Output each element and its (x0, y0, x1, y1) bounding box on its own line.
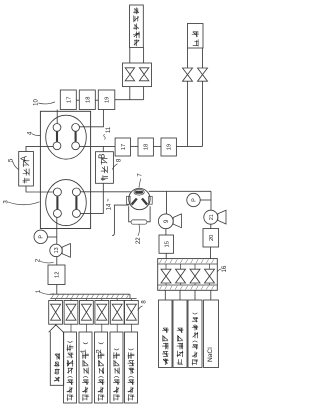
valve 13 (50, 244, 62, 256)
wire 17B-18B (131, 145, 139, 147)
svg-text:18: 18 (85, 97, 91, 103)
box 19 (row B) (161, 138, 176, 156)
box column B (カラムB) (96, 152, 114, 184)
manifold valve 4 box (95, 301, 109, 325)
valve block 16 outline (158, 259, 218, 291)
box 19 (row A) (98, 90, 115, 110)
port (53, 209, 61, 217)
port (72, 188, 80, 196)
box NaCl (204, 300, 219, 368)
svg-text:A: A (19, 155, 28, 161)
svg-text:20: 20 (209, 235, 215, 241)
box 15 (159, 235, 174, 253)
box 17 (row A) (60, 90, 76, 110)
port (72, 142, 80, 150)
wire junction to columnB top (102, 146, 104, 151)
block16 inner top line (158, 263, 217, 265)
svg-text:B: B (98, 154, 107, 159)
svg-text:NaCl: NaCl (207, 347, 214, 362)
wire nextstep right down (143, 47, 145, 63)
sample arrow (49, 325, 64, 332)
wire upper RT port to box19 (80, 110, 104, 127)
rotor channel upper-left (56, 132, 58, 142)
wire valve7 to right chain (149, 190, 211, 192)
sample container (50, 332, 63, 386)
valve waste-right (198, 68, 208, 81)
svg-text:17: 17 (66, 97, 72, 103)
valve7 left horn (127, 196, 131, 204)
wire below nextstep valve R (143, 87, 145, 100)
box buffer-washing (緩衝液(洗浄用)) (125, 332, 138, 403)
manifold band end (129, 294, 131, 298)
svg-text:2: 2 (94, 349, 103, 353)
svg-text:18: 18 (144, 144, 150, 150)
pump 21 (204, 210, 218, 224)
wire box20 to valve block (210, 247, 212, 259)
wire valve to reservoir (101, 324, 103, 332)
svg-text:P: P (39, 235, 45, 239)
wire nextstep left down (129, 47, 131, 63)
svg-text:P: P (192, 198, 198, 202)
valve in block16 @x=166 (161, 269, 171, 283)
pump P (right) (187, 193, 200, 206)
block16 hatch ticks (160, 259, 214, 289)
motor of valve 13 (62, 244, 70, 258)
manifold bottom line (50, 298, 136, 300)
box buffer-neutralize (緩衝液(中和化用)) (64, 332, 77, 403)
port (72, 209, 80, 217)
rotary valve 4 (upper circle) (46, 115, 87, 159)
valve7 bottom bracket (129, 206, 150, 222)
valve in block16 @x=180.5 (176, 269, 186, 283)
box 18 (row B) (138, 138, 153, 156)
wire valve to reservoir (70, 324, 72, 332)
wire P to main line (47, 236, 56, 238)
wire columnA bottom to lower LT port (26, 186, 53, 192)
tilde of 11 (104, 134, 106, 139)
manifold valve 3 box (80, 301, 94, 325)
valve in block16 @x=209.5 (205, 269, 215, 283)
wire valve to reservoir (116, 324, 118, 332)
wire down to pump 9 (166, 191, 168, 214)
svg-text:12: 12 (55, 272, 61, 278)
wire waste left upper (187, 48, 189, 68)
manifold valve 1 box (49, 301, 63, 325)
manifold top line (50, 293, 130, 295)
rotary valve 3 (lower circle) (46, 180, 87, 226)
wire 14 (drain) (112, 205, 129, 236)
wire 19B to waste valves (176, 145, 202, 147)
wire waste left lower (187, 81, 189, 146)
svg-text:15: 15 (164, 241, 170, 247)
svg-text:11: 11 (106, 126, 112, 133)
port (53, 188, 61, 196)
wire box15 to valve block (165, 253, 167, 258)
valve7 dark wedge left (132, 199, 137, 205)
wire block16 to reservoir (210, 290, 212, 300)
wire pump21 to box20 (210, 224, 212, 228)
wire down to pump 21 (210, 191, 212, 210)
wire block16 to reservoir (194, 290, 196, 300)
manifold hatch ticks (52, 295, 129, 299)
wire waste right lower (202, 81, 204, 146)
svg-text:13: 13 (54, 247, 60, 253)
svg-text:14: 14 (106, 203, 112, 210)
port (72, 124, 80, 132)
wire 17-18 (76, 99, 79, 101)
manifold valve 6 box (125, 301, 139, 325)
rotor channel lower-right (75, 196, 77, 209)
box buffer-elution (緩衝液(溶出用)) (110, 332, 123, 403)
wire below nextstep valve L (129, 87, 131, 100)
wire P to downline (200, 199, 211, 201)
svg-text:1: 1 (79, 349, 88, 353)
box regen-discharge (再生排出液) (173, 300, 187, 368)
pump P (left) (34, 230, 47, 243)
wire 18B-19B (153, 145, 161, 147)
wire valve to reservoir (85, 324, 87, 332)
valve nextstep-left (125, 68, 134, 81)
box buffer-elution2 (緩衝液(溶出用2)) (95, 332, 108, 403)
svg-text:16: 16 (222, 265, 228, 272)
rotor channel upper-right (75, 132, 77, 142)
rotary valve body rect (40, 111, 90, 228)
valve waste-left (183, 68, 193, 81)
svg-text:10: 10 (34, 99, 40, 106)
svg-text:21: 21 (209, 214, 215, 220)
svg-text:19: 19 (167, 144, 173, 150)
box next-step (次ステップ) (130, 5, 144, 47)
wire 19 to nextstep valves (115, 99, 144, 101)
box 12 (48, 265, 65, 285)
box 20 (203, 229, 219, 247)
block16 inner bottom line (158, 284, 217, 286)
box column A (カラムA) (19, 152, 34, 187)
wire 13 to box12 (56, 257, 58, 265)
valve in block16 @x=195 (190, 269, 200, 283)
box washing-discharge (洗浄排出液) (159, 300, 173, 368)
pump 9 (158, 214, 173, 229)
rotor channel lower-left (56, 196, 58, 209)
wire waste right upper (202, 48, 204, 68)
motor of pump 9 (173, 214, 181, 228)
wire columnA top to upper LB port (26, 146, 53, 151)
port (53, 142, 61, 150)
wire box17 to port (56, 110, 58, 124)
box 17 (row B) (115, 138, 130, 156)
manifold valve 2 box (64, 301, 78, 325)
wire pump9 to box15 (165, 229, 167, 235)
valve7 top port outline (134, 189, 144, 195)
wire box12 to manifold (56, 285, 58, 295)
svg-text:22: 22 (136, 237, 142, 244)
wire 18-19 (95, 99, 98, 101)
port (53, 124, 61, 132)
valve7 dark wedge right (142, 199, 147, 205)
wire block16 to reservoir (179, 290, 181, 300)
sample inlet (サンプル) (55, 324, 57, 326)
manifold valve 5 box (110, 301, 124, 325)
wire valve to reservoir (130, 324, 132, 332)
box waste (廃液) (188, 24, 204, 49)
wire lower RT port to valve7 (81, 191, 131, 193)
wire columnB bottom to lower RB port (81, 183, 104, 213)
rotary selector valve 7 body (129, 188, 150, 209)
svg-text:19: 19 (105, 97, 111, 103)
valve box (next-step pair) (123, 63, 152, 87)
svg-text:17: 17 (121, 144, 127, 150)
wire upper RB port to box17B (80, 145, 116, 147)
valve7 right horn (149, 196, 153, 204)
motor of pump 21 (218, 210, 226, 224)
tilde of 14 (106, 199, 109, 201)
wire block16 to reservoir (164, 290, 166, 300)
box 18 (row A) (79, 90, 95, 110)
box buffer-elution1 (緩衝液(溶出用1)) (79, 332, 92, 403)
box buffer-equilibration (緩衝液(平衡化)) (188, 300, 202, 368)
valve nextstep-right (139, 68, 148, 81)
wire lower LB port down (56, 217, 58, 244)
